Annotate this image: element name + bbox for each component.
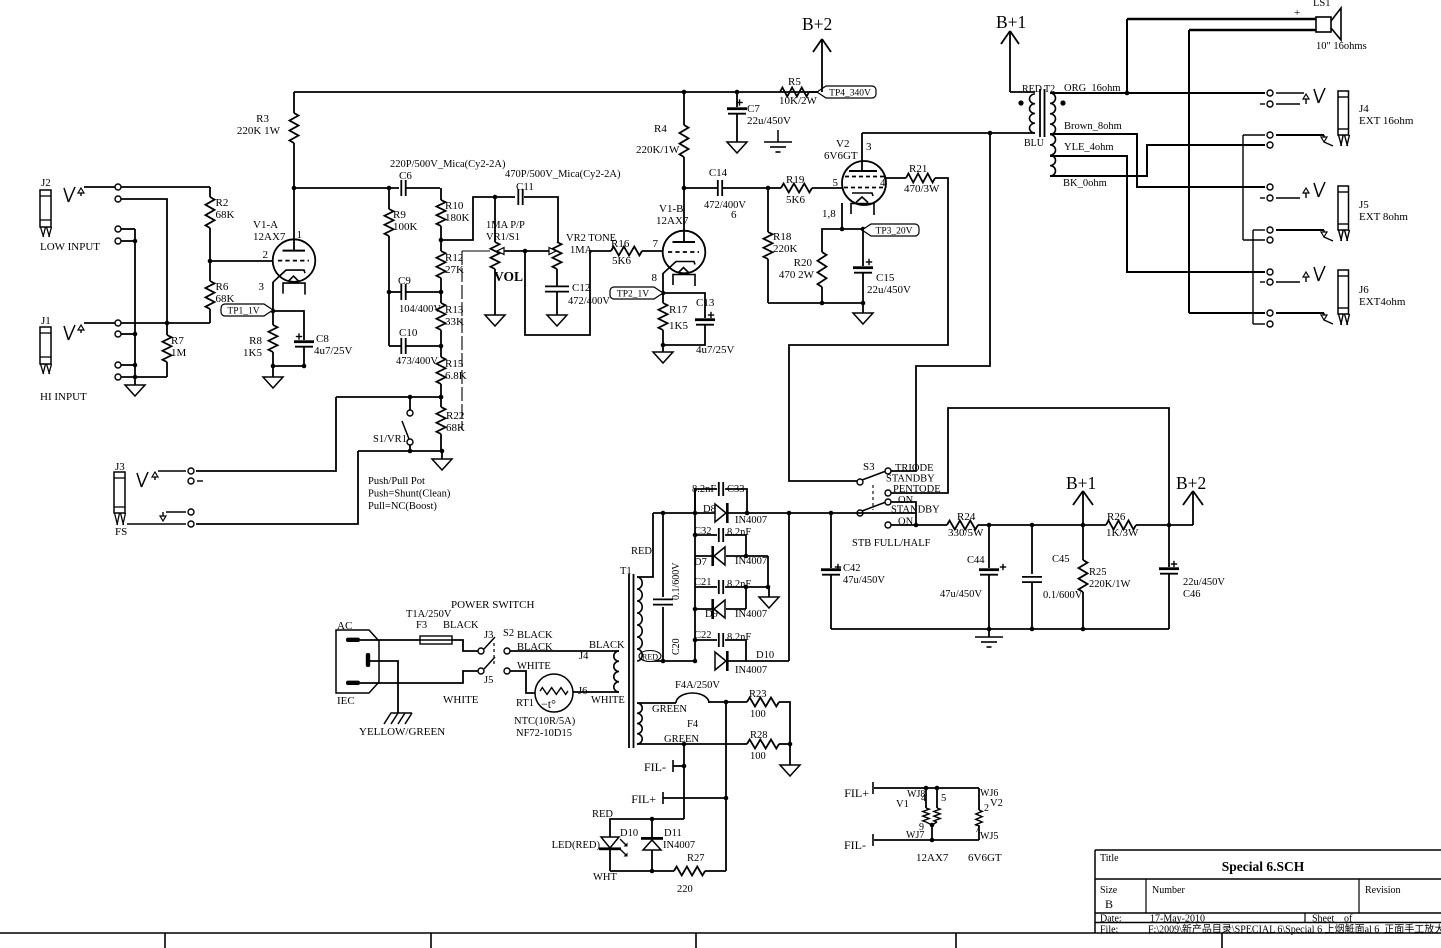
svg-text:5: 5 [833,177,839,189]
power arrow B+2 [1192,492,1194,525]
svg-text:FIL+: FIL+ [844,786,869,800]
node: VR1 top [493,195,498,200]
svg-text:NF72-10D15: NF72-10D15 [516,728,572,739]
svg-text:C9: C9 [398,275,411,287]
node: R4 top [682,90,687,95]
svg-text:STB FULL/HALF: STB FULL/HALF [852,538,931,549]
power arrow B+1 (top) [1001,31,1010,44]
svg-text:R23: R23 [749,689,767,700]
node: C9 junctions [387,290,392,295]
wire S1 row [336,396,441,398]
svg-text:BLACK: BLACK [589,640,625,651]
wire C6 to R10 [406,187,440,189]
svg-text:C12: C12 [572,282,590,294]
svg-text:Revision: Revision [1365,885,1401,896]
capacitor C46 [1168,525,1170,567]
svg-text:7: 7 [653,238,659,250]
wire ORG 16ohm tap [1050,92,1265,94]
potentiometer VR2 (tone) [553,242,562,269]
wire D8-D7 left bus [694,489,696,556]
beam tube V2 [842,161,886,205]
svg-text:F3: F3 [416,620,427,631]
svg-text:WHITE: WHITE [443,694,479,706]
resistor R17 [659,303,668,330]
svg-text:1K5: 1K5 [669,320,688,332]
J2 shunt contacts to ground bus [115,226,121,232]
ground (C12) [547,315,567,326]
wire HV winding bottom rail [650,660,695,662]
svg-text:LOW INPUT: LOW INPUT [40,241,100,253]
svg-text:1: 1 [297,229,303,241]
svg-text:V2: V2 [990,798,1003,809]
svg-text:VR1/S1: VR1/S1 [486,232,520,243]
svg-text:220K: 220K [773,243,798,255]
capacitor C45 [1031,525,1033,574]
switch S1 lower contact [407,439,413,445]
svg-text:R13: R13 [445,304,464,316]
terminal FIL+ (tubes) [872,782,874,794]
ground (S1) [432,459,452,470]
resistor R20 [818,252,827,287]
node: plate/triode-feed junction [988,131,993,136]
resistor R18 [764,232,773,259]
svg-text:EXT 16ohm: EXT 16ohm [1359,115,1414,127]
svg-text:V1: V1 [896,799,909,810]
node: R15/R22 junction [439,395,444,400]
switch S3 pole 2 (standby) [857,510,863,516]
speaker LS1 [1316,17,1331,32]
wire B+2 rail top [294,91,822,93]
capacitor C21 snubber [695,586,717,588]
svg-text:FIL-: FIL- [644,760,666,774]
svg-text:Size: Size [1100,885,1118,896]
wire D9-D10 left bus [694,609,696,661]
svg-text:4u7/25V: 4u7/25V [314,345,353,357]
svg-text:0.1/600V: 0.1/600V [1043,590,1083,601]
fuse F3 [420,636,452,644]
J3 lower ring contact [188,509,194,515]
resistor R5 [780,88,809,97]
svg-text:RED: RED [1022,84,1042,95]
svg-text:TP1_1V: TP1_1V [227,307,259,317]
svg-text:R18: R18 [773,231,792,243]
transformer T2 primary coil [1030,94,1036,133]
T2 phase dot right [1060,100,1065,105]
svg-text:D10: D10 [620,828,638,839]
svg-text:J4: J4 [579,651,589,662]
wire R9 bottom to C10 [388,292,390,346]
svg-text:Special 6.SCH: Special 6.SCH [1222,859,1305,874]
switch S1 upper contact [409,397,411,410]
jack J1 (hi input) [40,315,84,374]
node: C33 right return [745,511,750,516]
svg-text:J3: J3 [484,630,493,641]
svg-text:C13: C13 [696,297,715,309]
wire V1-B cathode lead [662,273,664,303]
svg-text:472/400V: 472/400V [704,200,746,211]
S3 contact TRIODE [885,468,891,474]
svg-text:R24: R24 [957,511,976,523]
svg-text:17-May-2010: 17-May-2010 [1150,914,1205,925]
svg-text:B+2: B+2 [1176,473,1206,493]
jack J2 (low input) [40,177,84,237]
earth symbol YELLOW/GREEN [384,713,405,724]
capacitor C20 [662,513,664,597]
resistor R25 [1079,560,1088,592]
svg-text:RED: RED [631,546,652,557]
wire wiper loop down to R16 [525,251,611,335]
svg-text:D9: D9 [705,609,718,620]
node: C32 left [693,533,698,538]
testpoint TP2_1V [610,287,663,299]
capacitor C42 [830,513,832,568]
svg-text:R5: R5 [788,76,801,88]
svg-text:R19: R19 [786,174,805,186]
svg-text:330/5W: 330/5W [948,527,984,539]
svg-text:1M: 1M [171,347,187,359]
svg-text:47u/450V: 47u/450V [940,589,982,600]
svg-text:J6: J6 [1359,284,1369,296]
resistor R28 [747,740,779,749]
svg-text:220K/1W: 220K/1W [636,144,680,156]
wire V2 plate lead up [861,133,863,171]
resistor R7 [163,335,172,362]
svg-text:D11: D11 [664,828,682,839]
svg-text:R10: R10 [445,200,464,212]
svg-text:Brown_8ohm: Brown_8ohm [1064,121,1122,132]
svg-text:J6: J6 [578,686,587,697]
capacitor C9 [400,284,402,300]
svg-text:T1A/250V: T1A/250V [406,609,452,620]
svg-text:C42: C42 [843,563,861,574]
ground (rectifier mid) [768,587,770,597]
resistor R16 [611,247,642,256]
ground (V1-A cathode) [272,366,274,377]
svg-text:Push/Pull Pot: Push/Pull Pot [368,476,425,487]
svg-text:D10: D10 [756,650,774,661]
wire S1 to ground [358,450,442,452]
svg-text:R17: R17 [669,304,688,316]
svg-text:10K/2W: 10K/2W [779,95,818,107]
wire RED row to LED [610,819,684,837]
svg-text:RT1: RT1 [516,698,534,709]
terminal FIL- (supply side) [672,760,674,772]
label RED (winding bottom) [639,651,661,662]
capacitor C13 [695,318,715,321]
wire cathode to C13 [663,293,705,318]
svg-text:RED: RED [592,809,613,820]
svg-text:GREEN: GREEN [652,704,687,715]
svg-text:T1: T1 [620,566,632,577]
S3 contact ON lower [885,522,891,528]
svg-text:R27: R27 [687,853,705,864]
wire BK 0ohm tap [1050,145,1265,176]
svg-text:YLE_4ohm: YLE_4ohm [1064,142,1114,153]
wire V2 plate to transformer primary [862,132,1035,134]
node: cathode/TP2 [661,291,666,296]
svg-text:−t°: −t° [541,697,556,711]
svg-text:220: 220 [677,884,693,895]
transformer T2 secondary coil [1050,93,1056,176]
svg-text:5K6: 5K6 [612,255,631,267]
node: C45 top [1030,523,1035,528]
svg-text:RED: RED [642,653,658,662]
node: cathode node V2 [840,227,845,232]
heater V2 filament [978,788,980,810]
node: R24 input [914,523,919,528]
svg-text:8.2nF: 8.2nF [727,527,751,538]
svg-text:68K: 68K [216,209,235,221]
S3 contact ON upper [885,499,891,505]
svg-text:R3: R3 [256,113,269,125]
svg-text:V2: V2 [836,138,849,150]
wire jack interlock J4-J5 [1242,135,1244,240]
svg-text:VOL: VOL [494,269,523,284]
chassis ground (PSU) [988,629,990,637]
svg-text:Title: Title [1100,853,1119,864]
transformer T1 core [628,574,630,748]
svg-text:22u/450V: 22u/450V [867,284,911,296]
wire V1-A plate lead [293,188,295,250]
svg-text:TP3_20V: TP3_20V [876,227,913,237]
wire V1-A cathode lead [272,282,274,325]
wire FIL- bus [872,834,874,846]
svg-text:V1-B: V1-B [659,203,683,215]
svg-text:2: 2 [984,803,989,814]
node: heater bottom junction [682,742,687,747]
svg-text:C11: C11 [516,181,534,193]
svg-text:STANDBY: STANDBY [886,474,935,485]
svg-text:1K5: 1K5 [243,347,262,359]
wire C11 to VR2 top [524,197,558,242]
svg-text:S3: S3 [863,461,875,473]
J3 sleeve contact [127,523,186,525]
svg-text:EXT 8ohm: EXT 8ohm [1359,211,1408,223]
svg-text:1K/3W: 1K/3W [1106,527,1139,539]
switch S2 contact right (hot) [504,648,510,654]
svg-text:FIL-: FIL- [844,838,866,852]
wire R21 to S3 screen select [789,178,948,481]
diode D10 (rectifier) [715,652,726,670]
switch S3 pole 1 (screen) [857,479,863,485]
svg-text:TRIODE: TRIODE [895,463,934,474]
node: R23/R28 junction [788,742,793,747]
capacitor C33 snubber loop [695,489,717,513]
svg-text:R20: R20 [794,257,813,269]
S3 contact PENTODE [885,490,891,496]
capacitor C12 [545,285,569,287]
wire neutral lead [360,671,478,683]
svg-text:F4A/250V: F4A/250V [675,680,720,691]
svg-text:Number: Number [1152,885,1185,896]
wire cathode to R20 [822,229,842,252]
svg-text:POWER SWITCH: POWER SWITCH [451,599,534,611]
node: C20 top [661,511,666,516]
svg-text:22u/450V: 22u/450V [747,115,791,127]
svg-text:File:: File: [1100,925,1118,936]
wire heater bottom to LED feed [683,744,685,819]
svg-text:R2: R2 [216,197,229,209]
svg-text:12AX7: 12AX7 [916,852,949,864]
resistor R3 [290,113,299,143]
jack J3 footswitch [114,461,158,538]
svg-text:IN4007: IN4007 [663,840,695,851]
svg-text:R21: R21 [909,163,927,175]
wire V1-B plate lead [683,188,685,242]
diode D11 [651,819,653,838]
node: rail junctions [987,627,992,632]
svg-text:R28: R28 [750,730,768,741]
wire C9 row [389,291,401,293]
wire triode tap to S3 [891,133,990,471]
resistor R24 [947,521,978,530]
svg-text:IN4007: IN4007 [735,515,767,526]
VR2 wiper arrow [549,248,556,255]
wire plate row to C6 [294,187,399,189]
svg-text:R12: R12 [445,252,463,264]
svg-text:WHT: WHT [593,872,617,883]
jack J6 EXT 4ohm [1189,266,1406,327]
T2 phase dot left [1018,100,1023,105]
node: speaker + junction [1125,91,1130,96]
svg-text:R7: R7 [171,335,184,347]
ground (V1-B cathode) [662,345,664,352]
wire HV+ rail [653,512,916,514]
svg-text:WHITE: WHITE [591,695,625,706]
node: C10/R13 junction [439,344,444,349]
svg-text:BLACK: BLACK [443,620,479,631]
svg-text:BLACK: BLACK [517,630,553,641]
capacitor C44 [988,525,990,568]
node: C44 top [987,523,992,528]
svg-text:B+2: B+2 [802,14,832,34]
svg-text:Pull=NC(Boost): Pull=NC(Boost) [368,501,437,512]
svg-text:B+1: B+1 [1066,473,1096,493]
node: V1-A grid node [208,259,213,264]
capacitor C10 [400,338,402,354]
chassis ground symbol [777,130,779,142]
svg-text:V1-A: V1-A [253,219,278,231]
svg-text:473/400V: 473/400V [396,356,438,367]
switch S2 contact J5 [478,668,484,674]
wire YLE 4ohm tap [1050,156,1265,272]
wire R10 junction to C11 line [441,197,515,240]
node: D10 riser top [787,511,792,516]
transformer T1 heater winding [637,703,642,744]
power arrow B+2 (top) [821,40,823,92]
svg-text:J5: J5 [484,675,493,686]
capacitor C22 snubber [695,639,717,641]
resistor R8 [269,325,278,352]
node: C14/R19/R18 junction [766,186,771,191]
svg-text:+: + [1294,7,1300,19]
wire C10 row [389,345,401,347]
svg-text:Date:: Date: [1100,914,1122,925]
svg-text:LS1: LS1 [1313,0,1331,9]
svg-text:6V6GT: 6V6GT [968,852,1002,864]
svg-text:68K: 68K [216,293,235,305]
wire D10 row and riser to HV+ rail [728,660,789,662]
svg-text:10" 16ohms: 10" 16ohms [1316,41,1367,52]
svg-text:NTC(10R/5A): NTC(10R/5A) [514,716,576,727]
node: C20 bottom [661,659,666,664]
svg-text:100: 100 [750,751,766,762]
node: C15 bottom [861,301,866,306]
node: R3/C6/plate junction [292,186,297,191]
svg-text:C45: C45 [1052,554,1070,565]
wire B+1 to T2 primary [1010,91,1035,93]
wire NTC to T1 primary bottom [573,691,619,693]
wire wiper bus VR1-VR2 [505,250,549,252]
resistor R19 [781,184,812,193]
svg-text:470P/500V_Mica(Cy2-2A): 470P/500V_Mica(Cy2-2A) [505,169,621,180]
svg-text:0.1/600V: 0.1/600V [671,562,682,600]
wire C15 bottom rail [862,273,864,303]
capacitor C15 [862,229,864,266]
J2 tip contact wire to R2 [84,186,115,188]
svg-text:C33: C33 [727,484,745,495]
wire WHT row [610,870,674,872]
thermistor RT1 (NTC) [535,674,573,712]
J1 ring contact wire [115,331,121,337]
node: V1 heater center tap [930,823,935,828]
node: R4/C14/plate junction [682,186,687,191]
sheet border bottom [0,932,1441,934]
dashed gang link S3 [872,485,874,510]
wire grid to V1-A pin 2 [210,260,273,262]
svg-text:of: of [1344,914,1353,925]
node: C42 top on rail [829,511,834,516]
LED D10 (indicator) [601,837,619,848]
wire C13 bottom to R17 bottom [663,325,705,345]
ground (input bus) [125,385,145,396]
svg-text:YELLOW/GREEN: YELLOW/GREEN [359,726,445,738]
resistor R26 [1106,521,1136,530]
wire speaker negative [1189,29,1316,31]
node: B+1/R25 top [1081,523,1086,528]
svg-text:5K6: 5K6 [786,194,805,206]
wire Brown 8ohm tap [1050,134,1265,187]
diode D9 [695,608,713,610]
svg-text:470 2W: 470 2W [779,269,815,281]
IEC inlet connector [336,630,379,693]
node: C21/ground junction [744,585,749,590]
capacitor C11 [517,189,519,205]
wire V2 cathode lead [841,203,843,229]
svg-text:27K: 27K [445,264,464,276]
svg-text:R4: R4 [654,123,667,135]
transformer T2 core [1039,89,1041,137]
node: R8/C8 bottom [271,364,276,369]
svg-text:J3: J3 [115,461,125,473]
triode V1-B [663,231,706,274]
wire hot lead to fuse [360,639,420,641]
wire ON contacts to R24 [891,502,916,525]
svg-text:33K: 33K [445,316,464,328]
node: D9 left [693,607,698,612]
node: D11 top [650,817,655,822]
svg-text:WJ5: WJ5 [980,831,998,842]
svg-text:47u/450V: 47u/450V [843,575,885,586]
resistor R12 [437,251,446,278]
potentiometer VR1 (volume) [494,197,496,242]
wire heater top / fuse F4 [637,702,676,704]
resistor R21 [906,174,935,183]
wire neutral to NTC [510,671,535,693]
svg-text:J4: J4 [1359,103,1369,115]
transformer T1 HV winding [637,577,642,661]
J3 tip contact [158,470,186,472]
